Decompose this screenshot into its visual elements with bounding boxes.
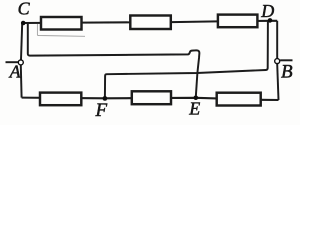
faint ghost wire under R1 — [37, 24, 85, 36]
resistor R4 bottom-left — [40, 93, 81, 106]
svg-text:C: C — [18, 0, 31, 19]
wire B terminal lead — [280, 59, 292, 61]
terminal B circle — [275, 59, 280, 64]
resistor R2 top-middle — [130, 16, 171, 30]
wire left vertical A branch — [21, 23, 22, 60]
resistor R6 bottom-right — [217, 93, 261, 106]
node D junction dot — [268, 18, 273, 23]
node E junction dot — [194, 95, 199, 100]
wire right vertical B branch — [276, 21, 278, 59]
svg-text:A: A — [9, 62, 22, 82]
svg-text:B: B — [281, 62, 293, 83]
terminal A circle — [18, 60, 23, 65]
wire middle W2: C-rail down, across, hop, down to E — [28, 24, 200, 96]
resistor R1 top-left — [41, 17, 82, 30]
node F junction dot — [103, 96, 108, 101]
wire W_D: F up, across, up to D — [105, 21, 268, 97]
svg-text:E: E — [188, 98, 200, 118]
wire A terminal lead — [6, 61, 19, 63]
resistor R3 top-right — [218, 15, 258, 28]
node C junction dot — [21, 21, 26, 26]
wire bottom rail — [22, 98, 279, 100]
resistor R5 bottom-middle — [132, 91, 171, 104]
svg-text:D: D — [260, 1, 274, 21]
svg-text:F: F — [95, 100, 108, 121]
wire top rail C to D — [23, 21, 277, 23]
